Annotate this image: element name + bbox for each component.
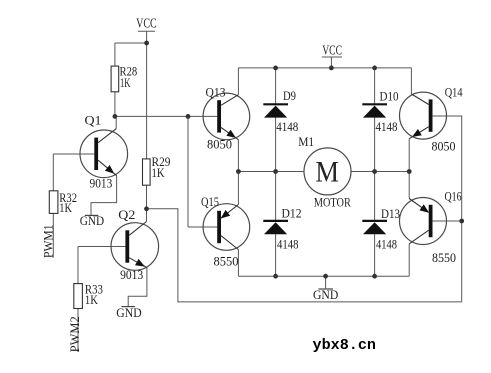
svg-text:D10: D10 [380, 89, 399, 104]
svg-text:8050: 8050 [207, 136, 232, 151]
svg-text:PWM2: PWM2 [67, 316, 82, 352]
svg-text:4148: 4148 [376, 119, 398, 134]
svg-text:Q15: Q15 [201, 194, 219, 209]
svg-text:M1: M1 [298, 134, 314, 149]
svg-text:4148: 4148 [376, 237, 397, 252]
svg-text:Q13: Q13 [206, 85, 226, 100]
svg-text:8550: 8550 [432, 250, 456, 265]
svg-text:D12: D12 [282, 206, 302, 221]
svg-text:8550: 8550 [214, 254, 239, 269]
svg-text:Q2: Q2 [118, 207, 135, 222]
svg-text:VCC: VCC [136, 16, 157, 31]
svg-text:D9: D9 [283, 88, 296, 103]
svg-text:D13: D13 [381, 206, 400, 221]
svg-text:Q16: Q16 [445, 188, 462, 203]
svg-text:Q1: Q1 [85, 113, 102, 128]
svg-text:GND: GND [313, 287, 338, 302]
svg-text:1K: 1K [85, 292, 98, 307]
svg-text:GND: GND [80, 213, 104, 228]
svg-text:4148: 4148 [277, 237, 299, 252]
svg-text:M: M [315, 155, 339, 188]
svg-text:MOTOR: MOTOR [314, 194, 351, 209]
svg-text:VCC: VCC [322, 43, 342, 58]
svg-text:9013: 9013 [90, 176, 113, 191]
svg-text:PWM1: PWM1 [40, 225, 55, 259]
svg-text:Q14: Q14 [445, 85, 463, 100]
svg-text:ybx8.cn: ybx8.cn [313, 337, 377, 354]
svg-text:1K: 1K [59, 200, 72, 215]
svg-text:GND: GND [116, 305, 141, 320]
svg-text:9013: 9013 [120, 267, 143, 282]
svg-text:4148: 4148 [276, 119, 298, 134]
svg-text:1K: 1K [152, 165, 165, 180]
svg-text:1K: 1K [120, 75, 131, 90]
svg-text:8050: 8050 [432, 139, 456, 154]
